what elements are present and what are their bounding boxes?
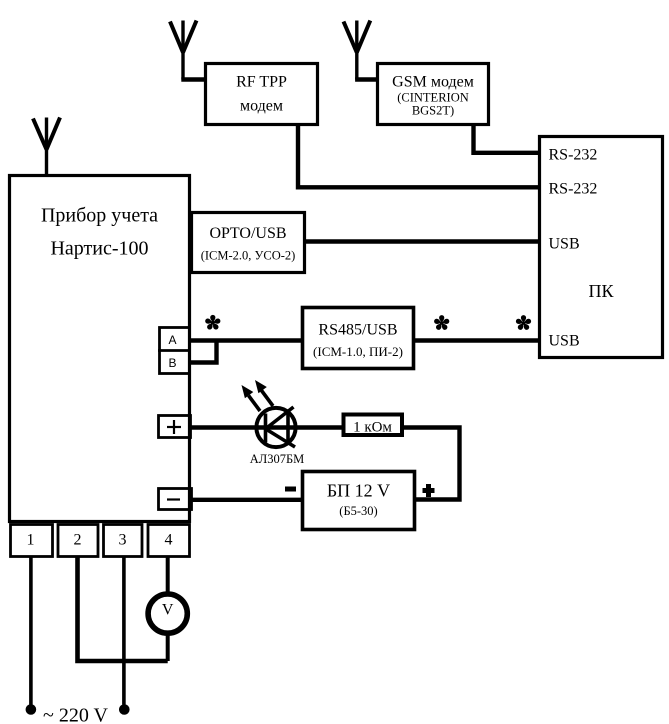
svg-text:A: A: [168, 333, 176, 347]
box ПК (PC): [540, 137, 663, 358]
wire terminal + to resistor (through LED): [191, 425, 344, 429]
asterisk (near ПК USB): [515, 315, 532, 331]
svg-text:RS-232: RS-232: [549, 181, 598, 198]
wire terminal 2 down and across: [78, 557, 168, 661]
svg-text:~ 220 V: ~ 220 V: [43, 705, 108, 724]
terminal 1: [11, 525, 53, 557]
svg-text:3: 3: [119, 532, 127, 549]
box OPTO/USB (ICM-2.0, УСО-2): [192, 213, 305, 273]
box GSM модем (CINTERION BGS2T): [378, 64, 489, 125]
box RS485/USB (ICM-1.0, ПИ-2): [303, 308, 414, 369]
resistor 1 кОм: [344, 415, 403, 436]
svg-text:GSM модем: GSM модем: [392, 74, 474, 91]
polarity - at БП input: [285, 487, 296, 492]
terminal A/B block on meter: [158, 328, 191, 374]
svg-text:модем: модем: [240, 98, 283, 115]
wire resistor to БП +: [402, 428, 460, 500]
svg-text:2: 2: [74, 532, 82, 549]
svg-text:(CINTERION: (CINTERION: [397, 91, 469, 105]
wire terminal 1 down to mains: [29, 557, 33, 705]
svg-text:(ICM-2.0, УСО-2): (ICM-2.0, УСО-2): [201, 249, 296, 263]
antenna (main meter): [33, 118, 60, 176]
mains terminal dot (left): [26, 704, 37, 715]
svg-text:USB: USB: [549, 333, 580, 350]
polarity + at БП output: [423, 484, 435, 497]
svg-text:АЛ307БМ: АЛ307БМ: [250, 452, 305, 466]
svg-text:1: 1: [27, 532, 35, 549]
svg-text:RF TPP: RF TPP: [236, 74, 287, 91]
svg-text:Прибор учета: Прибор учета: [41, 205, 158, 227]
wire terminal 4 to voltmeter: [166, 557, 170, 593]
terminal + on meter: [159, 416, 191, 438]
wire RS485/USB to ПК USB: [413, 338, 539, 342]
terminal 3: [104, 525, 143, 557]
terminal 4: [148, 525, 190, 557]
asterisk (near terminal A): [205, 315, 222, 331]
svg-text:(Б5-30): (Б5-30): [339, 504, 377, 518]
box RF TPP модем: [206, 64, 318, 125]
svg-text:B: B: [168, 356, 176, 370]
svg-text:Нартис-100: Нартис-100: [50, 238, 148, 260]
antenna (RF modem): [170, 21, 205, 80]
asterisk (right of RS485/USB): [433, 315, 450, 331]
wire terminal - to БП -: [191, 498, 303, 502]
LED АЛ307БМ: [250, 407, 305, 466]
svg-text:BGS2T): BGS2T): [412, 104, 454, 118]
LED arrow 2: [255, 380, 273, 406]
wire voltmeter down: [166, 634, 170, 661]
wire RF modem to ПК RS-232: [298, 126, 539, 187]
mains terminal dot (right): [119, 704, 130, 715]
svg-text:(ICM-1.0, ПИ-2): (ICM-1.0, ПИ-2): [313, 344, 403, 359]
wire GSM modem to ПК RS-232: [474, 126, 540, 153]
svg-text:ПК: ПК: [588, 281, 614, 301]
box БП 12 V (Б5-30) power supply: [303, 472, 415, 530]
svg-text:V: V: [162, 602, 174, 619]
svg-text:RS485/USB: RS485/USB: [318, 322, 397, 339]
svg-text:OPTO/USB: OPTO/USB: [209, 225, 286, 242]
wire terminal B (stub to bus): [191, 341, 217, 363]
box Прибор учета Нартис-100 (main meter): [10, 176, 190, 522]
terminal 2: [58, 525, 98, 557]
svg-text:4: 4: [165, 532, 173, 549]
LED arrow 1: [242, 385, 261, 411]
wire terminal 3 down to mains: [122, 557, 126, 705]
voltmeter V: [148, 594, 187, 633]
wire terminal A to RS485/USB: [191, 338, 303, 342]
antenna (GSM modem): [344, 21, 378, 80]
svg-text:1 кОм: 1 кОм: [353, 420, 392, 436]
svg-text:USB: USB: [549, 236, 580, 253]
svg-text:RS-232: RS-232: [549, 147, 598, 164]
wire OPTO/USB to ПК USB: [306, 239, 539, 243]
terminal - on meter: [159, 489, 192, 510]
svg-text:БП 12 V: БП 12 V: [327, 481, 390, 501]
